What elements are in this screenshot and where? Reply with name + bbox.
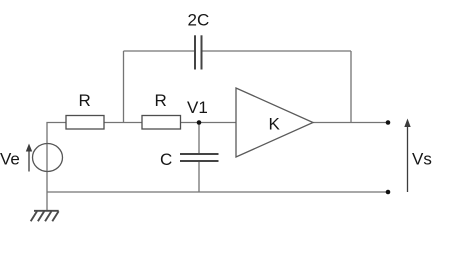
wire: feedback top right segment (202, 50, 352, 52)
svg-text:R: R (79, 91, 91, 110)
svg-text:V1: V1 (187, 98, 208, 117)
arrow for Ve (polarity arrow) (26, 144, 32, 172)
wire: bottom rail (47, 191, 388, 193)
wire: feedback top left segment (124, 50, 196, 52)
node V1 (junction dot) (197, 120, 202, 125)
svg-text:K: K (269, 115, 281, 134)
wire: node V1 down to capacitor C (198, 123, 200, 155)
wire: ground stub (46, 192, 48, 211)
wire: op-amp output to output node (313, 122, 388, 124)
svg-text:R: R (155, 91, 167, 110)
resistor R1 (66, 116, 104, 130)
wire: capacitor C to bottom rail (198, 161, 200, 192)
wire: R2 to op-amp input (181, 122, 237, 124)
node: output bottom (dot) (386, 190, 391, 195)
capacitor C (180, 154, 219, 161)
voltage source Ve (33, 144, 63, 172)
wire: between R1 and R2 (104, 122, 142, 124)
capacitor 2C (195, 35, 202, 69)
svg-text:Vs: Vs (412, 150, 432, 169)
op-amp K (amplifier triangle) (236, 88, 313, 157)
svg-text:Ve: Ve (0, 150, 20, 169)
ground (31, 211, 59, 222)
svg-text:2C: 2C (188, 11, 210, 30)
wire: feedback left leg (123, 51, 125, 123)
resistor R2 (142, 116, 181, 130)
wire: feedback right leg (350, 51, 352, 123)
arrow for Vs (output voltage arrow) (404, 119, 410, 193)
wire: source branch, corner at top to bottom rail (passes through source) (47, 123, 66, 193)
node: output top (dot) (386, 120, 391, 125)
svg-text:C: C (160, 150, 172, 169)
